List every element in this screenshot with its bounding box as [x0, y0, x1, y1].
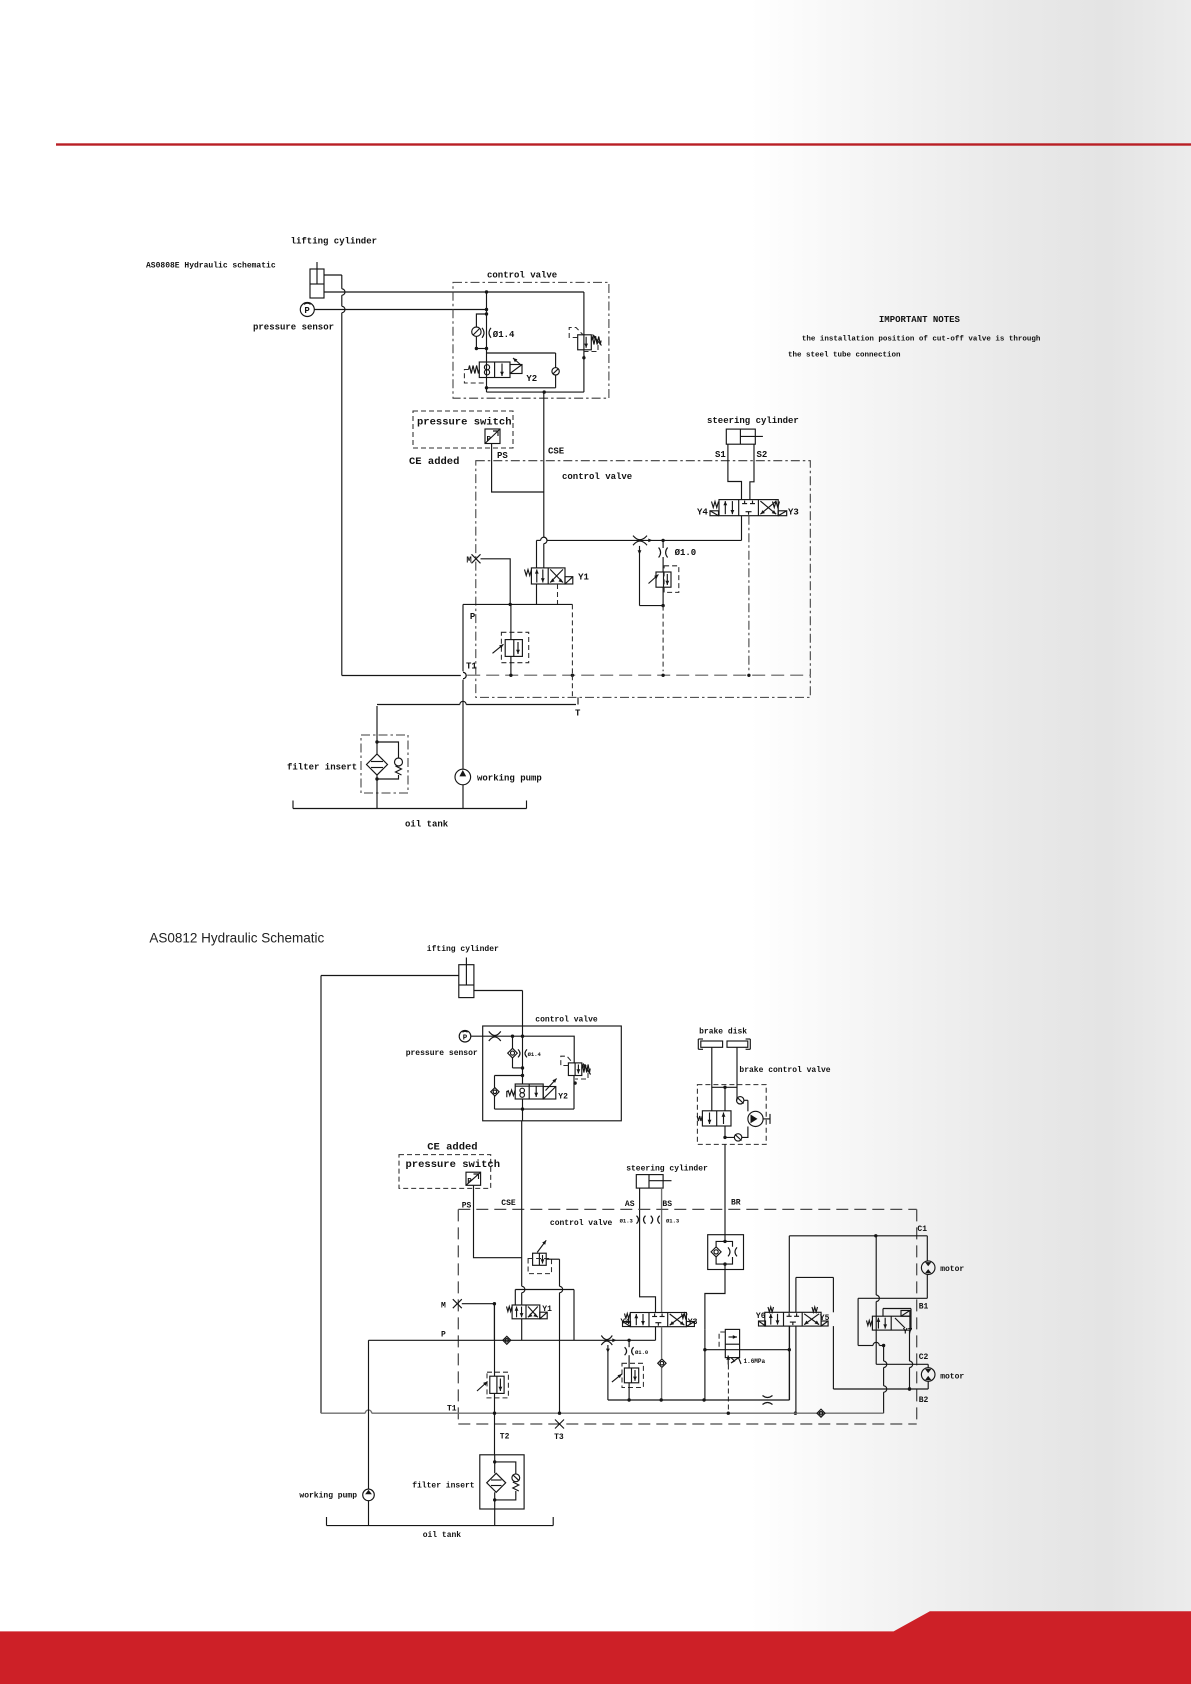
svg-text:pressure sensor: pressure sensor [406, 1049, 478, 1058]
wire C2 rail [876, 1363, 928, 1365]
svg-text:B2: B2 [919, 1396, 929, 1405]
svg-text:AS0808E Hydraulic schematic: AS0808E Hydraulic schematic [146, 262, 276, 271]
arc T1 over pump line [463, 672, 466, 678]
svg-text:BR: BR [731, 1199, 741, 1208]
node filter top [375, 740, 378, 743]
directional valve Y6-Y5 [759, 1307, 829, 1326]
wire sequence drain dashed [727, 1365, 729, 1414]
pressure switch PS symbol [485, 429, 500, 444]
svg-text:Y2: Y2 [558, 1092, 568, 1101]
pressure sensor B2 [459, 1030, 471, 1042]
svg-text:P: P [470, 612, 476, 622]
directional valve Y4-Y3 b [623, 1313, 695, 1327]
svg-text:Y3: Y3 [688, 1318, 698, 1327]
brake release box [708, 1235, 744, 1270]
relief valve RV4 main [528, 1240, 559, 1273]
directional valve Y4-Y3 body [719, 500, 778, 516]
wire Y3 side drain [748, 516, 750, 672]
wire S2 leg [750, 444, 754, 499]
svg-text:BS: BS [662, 1200, 672, 1209]
brake accumulator [748, 1111, 770, 1126]
node brake release out [723, 1262, 726, 1265]
node bypass bottom [521, 1107, 524, 1110]
relief valve RV3 [561, 1056, 591, 1079]
wire valve3 top-right loop [523, 1036, 575, 1063]
node P to PRV branch [627, 1339, 630, 1342]
wire Y7 right drain [909, 1330, 911, 1361]
wire restrictor pilot branch [638, 546, 664, 606]
svg-text:pressure switch: pressure switch [417, 417, 512, 429]
wire drain right corner [789, 1326, 791, 1400]
svg-text:T: T [575, 709, 581, 719]
orifice O1.3 BS [651, 1216, 680, 1225]
svg-text:the steel tube connection: the steel tube connection [788, 352, 901, 360]
wire Y7 left box [857, 1298, 859, 1345]
svg-text:CE added: CE added [409, 456, 459, 468]
relief valve RV2 on P gallery [493, 632, 529, 662]
svg-text:brake control valve: brake control valve [739, 1066, 830, 1075]
lifting cylinder CYL1 [310, 262, 324, 298]
svg-text:the installation position of c: the installation position of cut-off val… [802, 336, 1041, 344]
wire T return to filter [377, 704, 460, 706]
wire reducing valve to tank header [662, 606, 664, 672]
working pump P2 [363, 1489, 375, 1501]
svg-text:working pump: working pump [477, 774, 542, 784]
control valve 1 dashed enclosure [453, 282, 609, 398]
wire drain manifold [608, 1399, 790, 1401]
svg-text:control valve: control valve [562, 472, 632, 482]
wire vertical return line from cylinder [341, 275, 343, 289]
svg-text:P: P [441, 1331, 446, 1340]
wire Y5 end to B2 [832, 1326, 834, 1389]
wire cylinder upper port to down-line [324, 274, 342, 276]
wire filter line [376, 706, 378, 754]
T1 diamond check [817, 1409, 825, 1417]
node B2 junction [908, 1387, 911, 1390]
svg-text:Ø1.4: Ø1.4 [528, 1051, 542, 1058]
svg-text:brake disk: brake disk [699, 1028, 747, 1037]
node filter bottom [375, 777, 378, 780]
wire B1 rail [858, 1297, 927, 1299]
wire T2 into filter [494, 1455, 496, 1474]
wire main pressure line in valve 1 [486, 292, 488, 388]
svg-text:lifting cylinder: lifting cylinder [291, 237, 377, 247]
node check valve branch [475, 347, 478, 350]
svg-text:Y5: Y5 [820, 1314, 830, 1323]
wire P gallery header [463, 603, 572, 605]
node relief drain [573, 1081, 576, 1084]
wire Y6Y5 top loop [796, 1277, 834, 1312]
svg-text:IMPORTANT NOTES: IMPORTANT NOTES [879, 315, 961, 325]
svg-text:oil tank: oil tank [405, 820, 449, 830]
wire P rail [369, 1339, 656, 1341]
control valve 3 enclosure [483, 1026, 622, 1121]
node steering branch [661, 539, 664, 542]
motor M1 [921, 1261, 935, 1275]
wire cylinder to CSE drop [474, 990, 523, 992]
solenoid valve Y7 [867, 1311, 910, 1331]
node left loop takeoff [521, 1074, 524, 1077]
solenoid actuator of Y2 [510, 358, 522, 374]
svg-text:T2: T2 [500, 1433, 510, 1442]
node T1 junctions [493, 1412, 496, 1415]
node reducing valve out [661, 604, 664, 607]
filter2 bypass check [495, 1462, 520, 1500]
svg-text:Y4: Y4 [620, 1318, 630, 1327]
motor M2 [921, 1368, 935, 1382]
svg-text:filter insert: filter insert [412, 1482, 475, 1491]
flow restrictor FR2 [601, 1336, 612, 1340]
wire S1 leg [728, 444, 742, 499]
wire Y6Y5 left feed from C1 [788, 1236, 790, 1313]
control valve 2 dashed enclosure [476, 461, 811, 698]
node brake valve drain [723, 1136, 726, 1139]
flow restrictor FR1 [633, 536, 647, 540]
spring right of Y3 valve [773, 502, 780, 508]
brake disk [698, 1039, 750, 1049]
svg-text:filter insert: filter insert [287, 763, 357, 773]
filter insert F1 enclosure [361, 735, 408, 793]
oil tank 2 [327, 1517, 554, 1526]
svg-text:Ø1.0: Ø1.0 [675, 548, 697, 558]
node M2 junction [493, 1302, 496, 1305]
control valve 4 dashed enclosure [458, 1209, 916, 1424]
svg-text:PS: PS [497, 451, 508, 461]
node check out [521, 1066, 524, 1069]
pressure switch 2 enclosure [399, 1155, 491, 1189]
arrow FR2 [612, 1338, 616, 1342]
node PRV1 drain to T1 [661, 674, 664, 677]
wire Y6Y5 left below [788, 1326, 790, 1400]
svg-text:CSE: CSE [548, 447, 565, 457]
svg-text:control valve: control valve [487, 271, 557, 281]
orifice O1.4 small [518, 1049, 520, 1057]
sequence valve 1.6MPa [719, 1329, 741, 1364]
svg-text:P: P [467, 1178, 472, 1186]
svg-text:pressure switch: pressure switch [406, 1159, 501, 1171]
wire brake valve feed [724, 1087, 726, 1111]
wire C2 to motor2 [927, 1364, 929, 1367]
node Y1 drain to T1 [571, 674, 574, 677]
node CSE takeoff [543, 390, 546, 393]
restrictor on drain [763, 1396, 773, 1398]
wire valve1 top run to right side [487, 291, 584, 293]
node sequence rail right [788, 1348, 791, 1351]
node drain junctions [627, 1398, 630, 1401]
filter bypass check valve [377, 742, 403, 779]
pressure switch dashed enclosure [413, 411, 513, 448]
wire relief to loop [573, 1076, 575, 1110]
solenoid valve Y1b [507, 1305, 548, 1319]
check valve CV1 bypass branch [472, 314, 487, 349]
solenoid valve Y1 body [531, 568, 565, 584]
wire P rail to Y4b [655, 1327, 657, 1341]
node RV2 to T1 [509, 674, 512, 677]
check valve CV2 [552, 353, 559, 388]
wire steering main feed line [537, 539, 541, 541]
node brake release in [723, 1240, 726, 1243]
wire CSE main down [521, 1121, 523, 1287]
relief valve RV5 on T2 [477, 1372, 508, 1398]
svg-text:S2: S2 [757, 450, 768, 460]
lifting cylinder CYL3 [459, 958, 474, 998]
pressure reducing valve PRV1 [649, 566, 679, 606]
svg-text:B1: B1 [919, 1303, 929, 1312]
check valve CV3 [508, 1036, 523, 1068]
orifice O1.0 b [625, 1340, 634, 1368]
wire RV2 connections [510, 604, 512, 639]
wire tank riser [883, 1346, 885, 1362]
wire sensor to valve [471, 1035, 523, 1037]
wire motor2 to B2 [927, 1381, 929, 1389]
svg-text:Y3: Y3 [788, 508, 799, 518]
solenoid Y3 [778, 511, 787, 516]
svg-text:Y7: Y7 [903, 1328, 913, 1337]
wire brake legs tie [712, 1086, 737, 1088]
wire T1 rail 2 [321, 1412, 365, 1414]
wire BS drain and diamond [658, 1327, 666, 1400]
wire pressure sensor to control valve [314, 309, 486, 311]
svg-text:AS: AS [625, 1200, 635, 1209]
pressure switch PS2 symbol [466, 1172, 481, 1185]
T3 plug [555, 1420, 564, 1429]
wire inner box header [515, 1289, 574, 1291]
node sequence rail left [703, 1348, 706, 1351]
svg-text:T3: T3 [554, 1433, 564, 1442]
steering cylinder CYL2 [726, 429, 763, 444]
svg-text:motor: motor [940, 1373, 964, 1382]
wire CSE line down from valve 1 [543, 392, 545, 537]
filter insert F2 enclosure [480, 1455, 524, 1509]
wire main vertical through valve3 [522, 1036, 524, 1084]
wire left bypass loop [495, 1076, 575, 1110]
wire Y1 bottom ports [536, 584, 538, 604]
svg-text:CE added: CE added [427, 1142, 477, 1154]
filter element F2 [487, 1473, 506, 1492]
wire brake disk legs [711, 1047, 713, 1111]
wire BR to sequence valve [705, 1270, 725, 1401]
wire long left return line [320, 976, 322, 1414]
wire PS2 to CSE [474, 1185, 522, 1257]
svg-text:Y1: Y1 [578, 573, 589, 583]
wire filter2 to tank [494, 1492, 496, 1525]
spring Y2b [507, 1090, 515, 1097]
solenoid actuator Y2b [543, 1079, 556, 1100]
svg-text:P: P [487, 436, 492, 444]
svg-text:oil tank: oil tank [423, 1531, 462, 1540]
svg-text:motor: motor [940, 1265, 964, 1274]
wire BR line down [724, 1144, 726, 1234]
wire T1 tank header dashed [467, 674, 810, 676]
wire Y7 tie rail [858, 1345, 873, 1347]
oil tank [293, 801, 527, 809]
node Y7 tie [882, 1344, 885, 1347]
wire pressure switch to CSE line [492, 444, 544, 493]
node Y6Y5 to T1 [794, 1412, 797, 1415]
wire BS leg [661, 1188, 663, 1312]
wire AS leg [640, 1188, 656, 1312]
node P diamond check [503, 1336, 511, 1344]
wire FR2 drain branch [606, 1345, 610, 1400]
spring left of Y4 valve [712, 502, 719, 508]
wire Y6Y5 port to T1 [795, 1326, 797, 1413]
wire C1 to motor1 [926, 1236, 928, 1261]
wire C1 rail [789, 1235, 927, 1237]
spring of Y1 [525, 570, 532, 576]
node C1 branch [874, 1234, 877, 1237]
wire pump2 lines [368, 1340, 370, 1489]
arrow flow direction [648, 539, 652, 543]
wire inner box right leg [571, 604, 573, 675]
spring of Y2 [464, 366, 486, 384]
brake control valve enclosure [697, 1085, 766, 1145]
svg-text:Ø1.4: Ø1.4 [493, 330, 515, 340]
orifice O1.3 AS [620, 1216, 646, 1225]
svg-text:Ø1.3: Ø1.3 [666, 1218, 680, 1225]
relief valve RV1 [569, 328, 601, 358]
svg-text:C2: C2 [919, 1353, 929, 1362]
wire relief drop to Y1 [559, 1259, 561, 1286]
svg-text:steering cylinder: steering cylinder [626, 1165, 708, 1174]
check valve CV5 [737, 1097, 748, 1112]
wire T1 return from cylinder line [342, 675, 461, 677]
solenoid of Y1 [565, 577, 573, 584]
wire cylinder lower port to control valve [324, 291, 487, 293]
wire M port to P gallery [481, 559, 511, 605]
node filter2 bottom [493, 1498, 496, 1501]
wire Y2b lower [522, 1099, 524, 1121]
svg-text:M: M [441, 1302, 446, 1311]
restrictor on sensor line [489, 1031, 501, 1035]
svg-text:Y2: Y2 [526, 374, 537, 384]
svg-text:pressure sensor: pressure sensor [253, 323, 334, 333]
svg-text:ifting cylinder: ifting cylinder [427, 945, 499, 954]
brake valve body [697, 1111, 731, 1126]
svg-text:working pump: working pump [299, 1492, 357, 1501]
wire Y1b lower port [521, 1319, 523, 1341]
svg-text:control valve: control valve [535, 1016, 598, 1025]
M test port [472, 554, 481, 563]
svg-text:M: M [466, 556, 471, 566]
svg-text:AS0812 Hydraulic Schematic: AS0812 Hydraulic Schematic [149, 931, 324, 946]
svg-text:control valve: control valve [550, 1219, 613, 1228]
steering cylinder CYL4 [636, 1175, 671, 1189]
svg-text:1.6MPa: 1.6MPa [744, 1358, 766, 1365]
svg-text:Y4: Y4 [697, 508, 708, 518]
orifice O1.0 [659, 540, 668, 572]
wire Y2 bottom run [487, 387, 556, 389]
svg-text:Y6: Y6 [756, 1312, 766, 1321]
wire M2 to P [462, 1303, 495, 1305]
node relief return [582, 356, 585, 359]
node sensor line junctions [511, 1035, 514, 1038]
svg-text:CSE: CSE [501, 1199, 516, 1208]
svg-text:T1: T1 [447, 1405, 457, 1414]
svg-text:P: P [463, 1035, 468, 1043]
svg-text:T1: T1 [466, 662, 477, 672]
solenoid valve Y2 body [479, 362, 510, 378]
svg-text:Ø1.0: Ø1.0 [635, 1349, 648, 1356]
node brake tie [723, 1086, 726, 1089]
node filter2 top [493, 1460, 496, 1463]
solenoid valve Y2b body [515, 1084, 543, 1099]
node P gallery [509, 603, 512, 606]
svg-text:steering cylinder: steering cylinder [707, 416, 799, 426]
node junctions on main line [485, 290, 488, 293]
svg-text:P: P [304, 306, 310, 316]
svg-text:S1: S1 [715, 450, 726, 460]
wire Y2 upper tank run [487, 352, 556, 354]
wire sequence valve rail [705, 1349, 789, 1351]
svg-text:Y1: Y1 [542, 1305, 552, 1314]
wire M2 drop [493, 1304, 495, 1341]
node Y3 drain to T1 [747, 674, 750, 677]
solenoid Y4 [710, 511, 719, 516]
wire feed through Y7 [875, 1236, 877, 1295]
wire cylinder to left down-line [321, 975, 459, 977]
orifice O1.4 [482, 328, 484, 338]
working pump P1 [455, 769, 471, 785]
wire motor1 to B1 [926, 1275, 928, 1299]
svg-text:Ø1.3: Ø1.3 [620, 1218, 634, 1225]
M test port 2 [453, 1299, 462, 1308]
check valve CV6 [725, 1126, 748, 1141]
filter element F1 [367, 754, 388, 775]
pressure sensor B1 [300, 303, 314, 317]
wire valve1 return bottom run [487, 391, 584, 393]
pressure reducing valve PRV2 [612, 1363, 644, 1400]
wire pump suction and delivery [462, 680, 464, 770]
wire Y7 loop box [883, 1309, 911, 1331]
wire B2 rail [833, 1388, 928, 1390]
svg-text:C1: C1 [917, 1225, 927, 1234]
node Y7 drain to B2 [908, 1387, 911, 1390]
wire valve1 right vertical [583, 292, 585, 392]
wire T2 line [494, 1304, 496, 1377]
check valve CV4 [491, 1088, 499, 1096]
